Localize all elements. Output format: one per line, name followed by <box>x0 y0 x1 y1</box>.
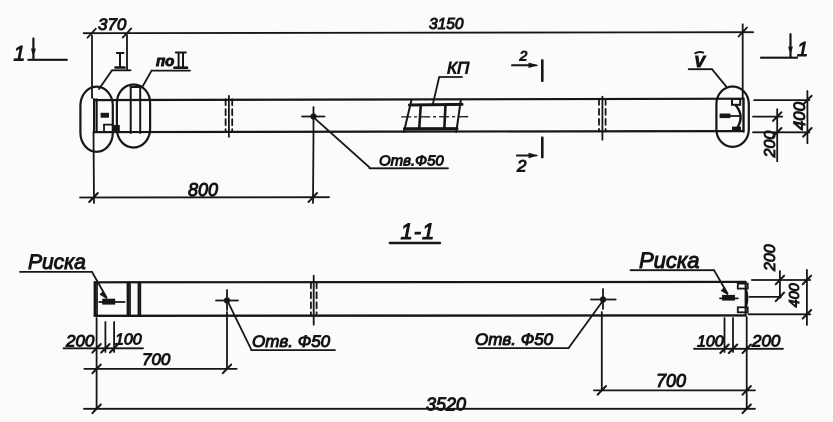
bottom filled mark <box>732 127 741 132</box>
svg-text:100: 100 <box>697 334 724 351</box>
svg-text:370: 370 <box>98 15 127 34</box>
right dims 100/200 (section) <box>694 317 783 409</box>
svg-text:КП: КП <box>447 59 470 78</box>
svg-text:по: по <box>156 53 174 70</box>
svg-text:200: 200 <box>762 244 779 272</box>
lifting loop arc (section) <box>746 289 748 308</box>
dimension 800 <box>80 132 329 203</box>
leader and text Отв.Ф50 (plan) <box>316 120 448 170</box>
detail balloon I (left oval) <box>80 87 112 152</box>
label Риска right with leader <box>631 248 729 296</box>
svg-text:200: 200 <box>65 332 95 351</box>
leader and text Отв. Ф50 (section right) <box>475 302 602 349</box>
svg-text:2: 2 <box>516 157 527 176</box>
joint line (section) <box>311 276 317 325</box>
svg-text:800: 800 <box>188 180 218 200</box>
svg-text:2: 2 <box>519 48 528 64</box>
svg-text:3520: 3520 <box>426 395 466 415</box>
svg-text:Отв. Ф50: Отв. Ф50 <box>475 330 554 349</box>
section mark 1 (left) <box>14 39 67 66</box>
riska mark in plan left end <box>101 113 109 118</box>
joint lines left (hidden) <box>226 96 233 137</box>
dim 700 right (section) <box>594 312 755 395</box>
loop tie line (plan) <box>730 115 739 117</box>
left dims 200/100 (section) <box>64 318 144 409</box>
section mark 1 (right) <box>761 34 808 61</box>
top dimension line 370 / 3150 <box>84 24 754 98</box>
riska mark right (section) <box>720 295 738 301</box>
joint lines right (hidden) <box>599 97 606 140</box>
detail balloon II (second oval) <box>117 85 150 148</box>
riska mark left (section) <box>99 299 124 305</box>
label V (view) with leader <box>689 52 727 87</box>
svg-text:200: 200 <box>751 332 781 351</box>
dimension ticks top <box>88 28 748 38</box>
right end fittings: top square <box>732 99 740 105</box>
label 1-1 <box>390 219 440 244</box>
right vertical dims 400/200 (plan) <box>753 91 809 161</box>
leader and text Отв. Ф50 (section left) <box>229 303 336 351</box>
svg-text:Отв. Ф50: Отв. Ф50 <box>252 332 331 351</box>
dim 700 left (section) <box>84 312 236 373</box>
dim 3520 (section) <box>84 395 755 415</box>
svg-text:1: 1 <box>797 39 808 61</box>
label по II with leader <box>142 53 190 88</box>
filled block right of notch <box>113 125 120 132</box>
label KP with leader <box>433 59 470 104</box>
right end filled bar <box>720 114 731 119</box>
svg-text:100: 100 <box>115 332 142 349</box>
KP plate (parallelogram) <box>402 99 468 132</box>
svg-text:3150: 3150 <box>429 16 464 33</box>
notch step at left end bottom <box>104 125 113 132</box>
hole Отв.Ф50 left (section) <box>216 290 238 310</box>
svg-text:700: 700 <box>656 371 686 391</box>
section mark 2 (bottom) <box>516 138 542 176</box>
balloon V (right oval) <box>716 87 748 147</box>
right end bottom bracket (section) <box>738 307 748 312</box>
svg-text:Риска: Риска <box>639 248 700 273</box>
beam top outline (plan view) <box>94 99 744 133</box>
svg-text:Отв.Ф50: Отв.Ф50 <box>379 153 444 170</box>
embedded plate band (по II) <box>131 87 141 133</box>
svg-text:1: 1 <box>14 43 26 66</box>
svg-text:700: 700 <box>142 350 171 369</box>
svg-text:400: 400 <box>790 101 809 130</box>
svg-text:200: 200 <box>762 131 779 159</box>
svg-text:V: V <box>694 54 706 71</box>
hole Отв.Ф50 in plan <box>302 107 325 132</box>
beam outline (section 1-1) <box>95 282 746 316</box>
label I with leader <box>99 53 131 89</box>
lifting loop hook (plan) <box>736 106 741 130</box>
right end top bracket (section) <box>738 284 748 289</box>
svg-text:400: 400 <box>787 283 803 307</box>
right vertical dims 200/400 (section) <box>748 270 810 325</box>
hole Отв.Ф50 right (section) <box>591 289 616 309</box>
plate band left (section) <box>128 282 141 316</box>
svg-text:1-1: 1-1 <box>401 219 436 244</box>
label Риска left with leader <box>20 251 108 300</box>
section mark 2 (top) <box>512 48 542 81</box>
svg-text:Риска: Риска <box>28 251 86 274</box>
